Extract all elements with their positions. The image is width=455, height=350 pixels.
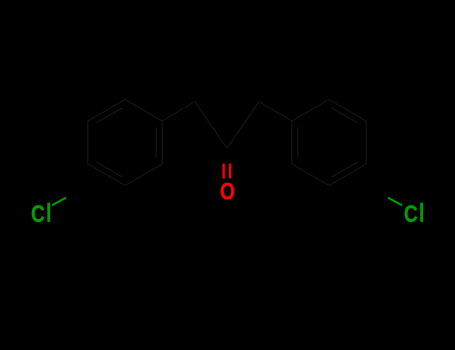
wire ring2 bond C5-C6 [365,121,367,164]
wire ring1 bond C6-C1 [88,100,125,122]
wire chain bond CH2a-C(=O) [195,102,227,149]
bond C-Cl right (green) [388,198,402,206]
wire ring2 bond C4-C5 [329,164,366,186]
wire ring1 bond C3-C4 [125,164,162,186]
wire ring2 bond C6-C1 [329,100,366,122]
wire ring1 bond C4-C5 [88,164,125,186]
wire ring1 double bond inner C2-C3 [155,127,157,157]
wire ring2 bond C3-C4 [292,164,329,186]
wire ring1 bond C1-C2 [125,100,162,122]
wire ring2 double bond inner C6-C1 [332,108,358,123]
atom label Cl left: l glyph [47,203,50,222]
wire ring1 bond C2-C3 [161,121,163,164]
wire ring2 double bond inner C2-C3 [297,127,299,157]
C=O double bond line 2 (red) [229,164,231,179]
bond C-Cl left (green) [52,198,66,206]
wire ring2 bond C2-C3 [291,121,293,164]
wire ring2 bond C1-C2 [292,100,329,122]
wire ring1 bond C5-C6 [87,121,89,164]
wire ring2 double bond inner C4-C5 [332,162,358,177]
svg-text:C: C [31,200,45,228]
wire ring1 double bond inner C6-C1 [96,108,122,123]
svg-text:O: O [220,178,235,206]
wire chain bond ring1-CH2a [162,102,195,122]
wire chain bond ring2-CH2b [259,102,292,122]
wire ring1 double bond inner C4-C5 [96,162,122,177]
C=O double bond line 1 (red) [222,164,224,179]
svg-text:C: C [404,200,418,228]
atom label Cl right: l glyph [420,203,423,222]
wire chain bond CH2b-C(=O) [227,102,259,149]
